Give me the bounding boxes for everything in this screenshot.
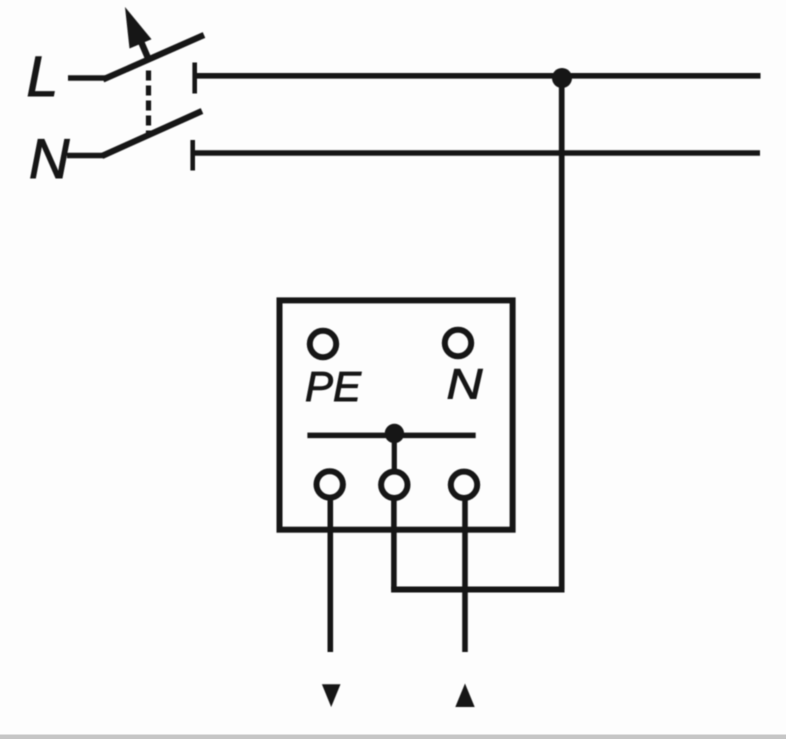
wire L main — [196, 73, 761, 79]
wire connector horizontal — [391, 587, 564, 593]
wire busbar stub — [392, 436, 397, 469]
wire bottom-left down — [327, 500, 333, 652]
terminal box — [280, 300, 513, 529]
wire N main — [194, 150, 760, 156]
terminal N circle — [445, 330, 471, 356]
wire bottom-right down — [462, 500, 468, 652]
bottom edge bar — [0, 735, 786, 739]
arrow down output — [322, 684, 341, 707]
wire N lead — [67, 153, 104, 159]
coupling dashed line — [146, 71, 151, 134]
terminal bottom-right circle — [451, 472, 477, 498]
terminal bottom-middle circle — [381, 472, 407, 498]
wire L lead — [68, 75, 107, 81]
contact bar L — [192, 63, 197, 94]
label L — [28, 57, 54, 96]
label PE — [306, 372, 361, 401]
actuator arrow head — [125, 7, 152, 49]
busbar node dot — [385, 424, 404, 443]
busbar line — [307, 433, 475, 439]
wire junction vertical — [559, 77, 565, 590]
terminal PE circle — [310, 331, 336, 357]
terminal bottom-left circle — [317, 471, 343, 497]
contact bar N — [190, 140, 195, 171]
actuator arrow shaft — [136, 30, 148, 58]
switch blade N — [102, 111, 202, 156]
node junction dot — [552, 68, 572, 88]
label N terminal — [448, 369, 482, 398]
wire bottom-middle down — [391, 500, 397, 590]
switch blade L — [103, 35, 204, 80]
arrow up output — [455, 684, 474, 708]
label N — [31, 139, 70, 178]
